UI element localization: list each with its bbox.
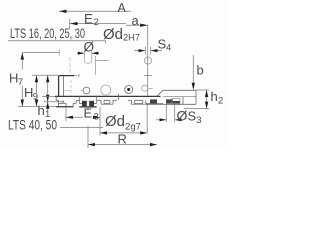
svg-text:LTS 16, 20, 25, 30: LTS 16, 20, 25, 30 — [10, 26, 85, 41]
inner vertical dimension line — [46, 75, 49, 101]
O dimension arrows — [77, 52, 99, 55]
svg-text:R: R — [118, 132, 127, 147]
svg-text:h: h — [211, 89, 218, 104]
leader near hole — [95, 56, 97, 75]
svg-text:2g7: 2g7 — [125, 122, 141, 133]
rail underside profile — [56, 96, 79, 106]
center stud area — [79, 96, 96, 111]
svg-text:LTS 40, 50: LTS 40, 50 — [8, 118, 57, 133]
circle hole 4 — [142, 85, 148, 91]
svg-text:E: E — [84, 106, 93, 121]
circle hole 3 — [125, 86, 133, 94]
small circle on S4 slot — [144, 57, 151, 64]
svg-text:E: E — [84, 12, 93, 27]
dimension a line — [126, 24, 148, 27]
right-of-center pockets — [97, 100, 146, 104]
h2 dimension — [184, 90, 209, 109]
left extension lines — [32, 74, 58, 76]
svg-text:Ød: Ød — [103, 27, 123, 43]
tick on extension at block-top level — [144, 75, 152, 77]
S4 dimension arrows — [134, 47, 162, 55]
circle hole 1 — [83, 87, 90, 94]
extension line from a down through rail — [147, 25, 149, 96]
leader underline for LTS 16-30 — [8, 40, 106, 42]
svg-text:3: 3 — [196, 115, 201, 126]
Od2g7 dimension line — [100, 131, 147, 134]
svg-text:a: a — [132, 13, 140, 28]
svg-text:S: S — [188, 109, 197, 124]
OS3 dimension — [156, 104, 182, 122]
E3 dimension — [66, 107, 100, 136]
circle hole 2 — [101, 85, 111, 95]
small hole below O — [84, 49, 91, 64]
svg-text:b: b — [197, 63, 204, 78]
R dimension — [88, 126, 157, 148]
carriage block — [59, 74, 79, 97]
svg-text:Ø: Ø — [177, 108, 188, 124]
svg-text:h: h — [38, 103, 45, 118]
svg-text:2: 2 — [94, 17, 99, 28]
H7 dimension line — [21, 53, 24, 107]
svg-text:A: A — [118, 1, 127, 15]
leader line for LTS 40,50 — [60, 127, 103, 129]
b dimension — [192, 55, 195, 90]
h1 dimension line — [46, 102, 49, 112]
dimension E2 line — [70, 19, 126, 30]
svg-text:Ød: Ød — [105, 114, 125, 130]
svg-text:2H7: 2H7 — [123, 33, 140, 44]
svg-text:Ø: Ø — [84, 40, 95, 55]
H7 top extension line — [22, 52, 60, 54]
svg-text:4: 4 — [166, 43, 171, 54]
H9 dimension line — [35, 75, 38, 106]
joint diagonal and right block — [146, 90, 196, 104]
hole centerline dashed — [69, 57, 71, 75]
svg-text:3: 3 — [94, 112, 99, 123]
dimension A line — [59, 10, 131, 13]
rail top line — [55, 95, 161, 97]
svg-text:2: 2 — [218, 96, 223, 107]
dark pocket mid-right — [146, 99, 163, 103]
joint tick — [118, 94, 120, 100]
